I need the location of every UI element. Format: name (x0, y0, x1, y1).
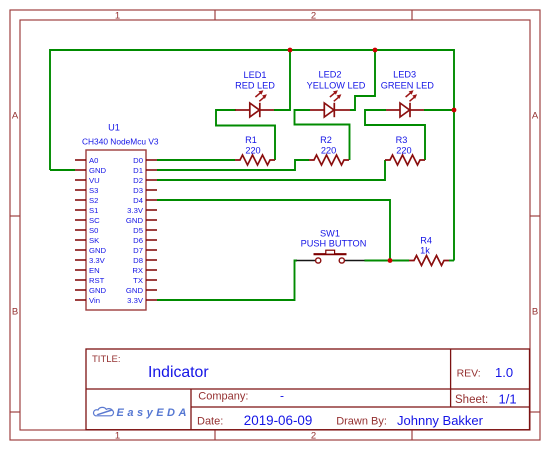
frame tick right lower (530, 411, 540, 413)
svg-text:GND: GND (89, 166, 107, 175)
svg-text:Company:: Company: (198, 391, 248, 403)
svg-text:S2: S2 (89, 196, 98, 205)
R2 designator (320, 135, 332, 145)
junction dot rail LED2 (373, 48, 378, 53)
svg-text:SW1: SW1 (320, 229, 340, 239)
frame label B left (12, 307, 18, 318)
U1 right pin stubs (146, 160, 157, 300)
title block TITLE label (92, 354, 121, 365)
svg-text:LED1: LED1 (244, 70, 267, 80)
frame tick left (10, 215, 20, 217)
svg-text:D8: D8 (133, 256, 143, 265)
wire R1 to LED1 anode (216, 110, 275, 160)
svg-text:R1: R1 (245, 135, 257, 145)
wire GND rail (50, 50, 454, 261)
title block rev value (495, 365, 513, 380)
svg-text:Indicator: Indicator (148, 364, 209, 381)
LED LED3 (386, 90, 424, 117)
svg-text:SK: SK (89, 236, 100, 245)
svg-text:Drawn By:: Drawn By: (336, 416, 387, 428)
SW1 value label (301, 239, 367, 249)
title block Date label (197, 416, 223, 428)
svg-text:CH340 NodeMcu V3: CH340 NodeMcu V3 (82, 137, 159, 147)
svg-text:B: B (12, 307, 18, 318)
title block sheet value (499, 392, 517, 407)
wire LED2 cathode to rail (350, 50, 375, 110)
svg-text:A: A (532, 110, 539, 121)
wire LED1 cathode to rail (274, 50, 290, 110)
svg-text:EN: EN (89, 266, 100, 275)
svg-text:B: B (532, 307, 538, 318)
svg-text:R4: R4 (420, 236, 432, 246)
U1 right pin names (126, 156, 144, 305)
resistor R3 (385, 155, 425, 165)
frame tick bottom 2 (411, 430, 413, 440)
svg-text:D3: D3 (133, 186, 143, 195)
frame label B right (532, 307, 538, 318)
junction dot rail LED3 (452, 108, 457, 113)
wire D4 to switch node (157, 200, 390, 261)
resistor R2 (309, 155, 349, 165)
svg-text:GREEN LED: GREEN LED (381, 81, 434, 91)
LED LED2 (310, 90, 350, 117)
svg-text:S1: S1 (89, 206, 98, 215)
R3 designator (396, 135, 408, 145)
wire SW1 to R4 (364, 260, 409, 262)
R1 value label (245, 146, 260, 156)
title block company value (280, 389, 284, 403)
svg-text:TITLE:: TITLE: (92, 354, 121, 365)
svg-text:2: 2 (311, 11, 316, 22)
svg-text:Sheet:: Sheet: (455, 394, 488, 406)
title block Sheet label (455, 394, 488, 406)
svg-text:-: - (280, 389, 284, 403)
svg-text:Vin: Vin (89, 296, 100, 305)
svg-text:LED3: LED3 (393, 70, 416, 80)
svg-text:1.0: 1.0 (495, 365, 513, 380)
op-amp U1 body (86, 150, 146, 310)
svg-text:S0: S0 (89, 226, 98, 235)
wire D2 to R3 (157, 160, 385, 180)
title block drawn by value (397, 413, 484, 428)
title block divider logo cell (190, 389, 192, 430)
frame tick right (530, 215, 540, 217)
svg-text:1k: 1k (420, 245, 430, 255)
title block REV label (457, 368, 481, 380)
title block title text (148, 364, 209, 381)
svg-text:3.3V: 3.3V (89, 256, 106, 265)
svg-text:LED2: LED2 (319, 70, 342, 80)
svg-text:2: 2 (311, 431, 316, 442)
svg-text:Johnny Bakker: Johnny Bakker (397, 413, 484, 428)
svg-text:3.3V: 3.3V (127, 296, 144, 305)
svg-text:YELLOW LED: YELLOW LED (307, 81, 366, 91)
svg-text:D0: D0 (133, 156, 143, 165)
svg-text:220: 220 (245, 146, 260, 156)
svg-text:RST: RST (89, 276, 105, 285)
svg-text:EasyEDA: EasyEDA (117, 407, 190, 419)
resistor R1 (235, 155, 275, 165)
svg-text:A: A (12, 110, 19, 121)
svg-text:D4: D4 (133, 196, 144, 205)
LED1 designator (244, 70, 267, 80)
svg-text:A0: A0 (89, 156, 98, 165)
frame tick bottom 1 (214, 430, 216, 440)
svg-text:D5: D5 (133, 226, 143, 235)
U1 left pin names (89, 156, 107, 305)
R4 value label (420, 245, 430, 255)
LED3 designator (393, 70, 416, 80)
svg-text:Date:: Date: (197, 416, 223, 428)
wire GND to U1 pin (50, 169, 75, 171)
svg-text:1: 1 (115, 11, 120, 22)
svg-text:R3: R3 (396, 135, 408, 145)
wire R4 to rail (449, 260, 454, 262)
wire D1 to R2 (157, 160, 309, 170)
svg-text:SC: SC (89, 216, 100, 225)
svg-text:RX: RX (132, 266, 143, 275)
wire 3.3V to SW1 (157, 261, 297, 301)
R1 designator (245, 135, 257, 145)
svg-text:D6: D6 (133, 236, 143, 245)
R2 value label (321, 146, 336, 156)
svg-text:S3: S3 (89, 186, 98, 195)
svg-text:U1: U1 (108, 123, 120, 133)
svg-text:2019-06-09: 2019-06-09 (244, 413, 312, 428)
SW1 designator (320, 229, 340, 239)
svg-text:3.3V: 3.3V (127, 206, 144, 215)
title block divider rev column (450, 349, 452, 407)
title block Drawn By label (336, 416, 387, 428)
wire LED3 cathode to rail (424, 109, 454, 111)
U1 designator (108, 123, 120, 133)
svg-text:VU: VU (89, 176, 100, 185)
svg-text:REV:: REV: (457, 368, 481, 380)
svg-text:GND: GND (126, 216, 144, 225)
frame label 2 top (311, 11, 316, 22)
frame label A right (532, 110, 539, 121)
svg-text:PUSH BUTTON: PUSH BUTTON (301, 239, 367, 249)
frame label 1 bottom (115, 431, 120, 442)
svg-text:220: 220 (321, 146, 336, 156)
svg-text:220: 220 (396, 146, 411, 156)
EasyEDA logo (93, 407, 189, 419)
LED1 value label (235, 81, 275, 91)
frame label 1 top (115, 11, 120, 22)
title block divider under title row (86, 388, 530, 390)
U1 left pin stubs (75, 160, 86, 300)
svg-text:R2: R2 (320, 135, 332, 145)
frame label 2 bottom (311, 431, 316, 442)
frame tick top 2 (411, 10, 413, 20)
svg-text:D1: D1 (133, 166, 143, 175)
svg-text:GND: GND (89, 286, 107, 295)
LED2 value label (307, 81, 366, 91)
R4 designator (420, 236, 432, 246)
wire R2 to LED2 anode (295, 110, 350, 160)
LED3 value label (381, 81, 434, 91)
frame label A left (12, 110, 19, 121)
svg-text:TX: TX (133, 276, 143, 285)
frame tick left lower (10, 411, 20, 413)
svg-text:GND: GND (89, 246, 107, 255)
svg-text:D7: D7 (133, 246, 143, 255)
title block date value (244, 413, 312, 428)
wire D0 to R1 (157, 159, 235, 161)
junction dot rail LED1 (288, 48, 293, 53)
svg-text:GND: GND (126, 286, 144, 295)
U1 value label (82, 137, 159, 147)
wire R3 to LED3 anode (365, 110, 425, 160)
svg-text:D2: D2 (133, 176, 143, 185)
resistor R4 (409, 256, 449, 266)
LED2 designator (319, 70, 342, 80)
svg-text:RED LED: RED LED (235, 81, 275, 91)
R3 value label (396, 146, 411, 156)
title block divider company/date (191, 406, 530, 408)
frame tick top 1 (214, 10, 216, 20)
svg-text:1: 1 (115, 431, 120, 442)
title block Company label (198, 391, 248, 403)
junction dot D4 switch (388, 258, 393, 263)
svg-text:1/1: 1/1 (499, 392, 517, 407)
switch SW1 (297, 250, 365, 263)
LED LED1 (235, 90, 274, 117)
title block border (86, 349, 530, 430)
